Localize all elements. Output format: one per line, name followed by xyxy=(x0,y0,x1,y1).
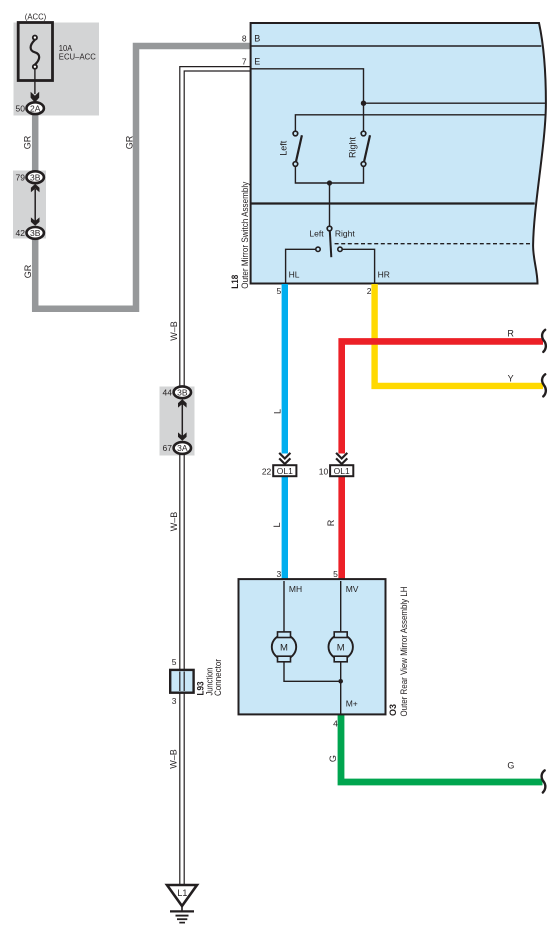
svg-text:22: 22 xyxy=(262,466,272,476)
section divider xyxy=(251,202,535,204)
fuse 10A ECU-ACC xyxy=(18,23,52,95)
wire to Left switch from right edge xyxy=(295,115,545,131)
svg-text:ECU–ACC: ECU–ACC xyxy=(59,52,96,62)
svg-text:M+: M+ xyxy=(346,698,358,708)
svg-text:Y: Y xyxy=(508,373,514,383)
svg-text:2A: 2A xyxy=(30,103,41,113)
svg-text:79: 79 xyxy=(16,172,26,182)
wire contact left to pin 5 HL xyxy=(286,249,316,282)
svg-text:3A: 3A xyxy=(177,443,188,453)
svg-text:L: L xyxy=(272,522,282,527)
wire pin 3 to motor MH xyxy=(283,581,285,632)
connector OL1 (10) chevrons xyxy=(336,453,347,464)
arrow into connector 2A xyxy=(31,92,40,103)
pin 8 line B xyxy=(251,45,542,47)
svg-text:M: M xyxy=(280,642,288,653)
connector 3B lower xyxy=(27,227,44,239)
svg-text:3: 3 xyxy=(172,696,177,706)
gray background panel behind connectors 44/67 xyxy=(160,387,195,456)
wire L blue lower xyxy=(282,477,288,580)
svg-text:GR: GR xyxy=(23,264,33,278)
svg-text:L1: L1 xyxy=(177,888,187,898)
wire pin 5 to motor MV xyxy=(340,581,342,632)
wire W-B double line from pin 7 E down to ground xyxy=(182,69,251,885)
svg-text:8: 8 xyxy=(242,34,247,44)
svg-text:M: M xyxy=(337,642,345,653)
motor M left xyxy=(272,632,296,662)
svg-text:5: 5 xyxy=(276,286,281,296)
selector blade xyxy=(330,231,332,257)
wire GR (gray) from 2A to 3B xyxy=(32,108,39,175)
svg-text:67: 67 xyxy=(163,443,173,453)
svg-text:4: 4 xyxy=(333,719,338,729)
svg-text:R: R xyxy=(326,519,336,526)
connector 2A xyxy=(27,102,44,114)
selector common contact xyxy=(327,226,332,231)
wire GR (gray) from 3B down, right, up to pin 8 B xyxy=(35,46,250,309)
svg-text:5: 5 xyxy=(333,569,338,579)
svg-text:2: 2 xyxy=(367,286,372,296)
wire from node to right edge xyxy=(364,102,546,104)
gray background panel behind fuse xyxy=(14,23,100,116)
junction arrows between 3B and 3A xyxy=(178,399,187,440)
svg-text:Outer Mirror Switch Assembly: Outer Mirror Switch Assembly xyxy=(240,181,250,288)
junction connector L93 xyxy=(170,670,193,693)
svg-text:OL1: OL1 xyxy=(334,466,350,476)
wire junction to pin 4 xyxy=(340,681,342,713)
svg-text:R: R xyxy=(507,329,514,339)
wire W-B through L93 xyxy=(179,672,185,692)
svg-text:Left: Left xyxy=(279,140,289,156)
bus joining both switches xyxy=(295,166,363,183)
node M+ junction xyxy=(338,679,343,684)
contact left xyxy=(316,247,320,251)
svg-text:E: E xyxy=(254,57,260,67)
outer rear view mirror assembly O3 box xyxy=(239,579,386,714)
svg-text:W–B: W–B xyxy=(169,749,179,769)
svg-text:Connector: Connector xyxy=(213,659,223,696)
gray background panel behind connectors 79/42 xyxy=(13,171,46,239)
connector 3B (44) xyxy=(174,386,191,398)
svg-text:3: 3 xyxy=(276,569,281,579)
svg-text:HR: HR xyxy=(378,270,390,280)
wire R red xyxy=(342,341,543,453)
svg-text:Right: Right xyxy=(335,228,355,238)
svg-text:G: G xyxy=(328,755,338,762)
svg-text:GR: GR xyxy=(23,135,33,149)
outer mirror switch assembly L18 box xyxy=(251,23,546,284)
svg-text:44: 44 xyxy=(163,387,173,397)
svg-text:OL1: OL1 xyxy=(277,466,293,476)
svg-text:3B: 3B xyxy=(177,387,188,397)
svg-text:W–B: W–B xyxy=(169,512,179,532)
svg-text:42: 42 xyxy=(16,228,26,238)
svg-text:10: 10 xyxy=(319,466,329,476)
node on bus xyxy=(327,180,332,185)
wire contact right to pin 2 HR xyxy=(342,249,374,282)
svg-text:HL: HL xyxy=(289,270,300,280)
node junction on E branch xyxy=(361,101,366,106)
wire Y yellow xyxy=(375,284,543,386)
svg-text:(ACC): (ACC) xyxy=(25,11,47,21)
wire L blue upper xyxy=(282,284,288,454)
contact right xyxy=(338,247,342,251)
break symbol red xyxy=(542,330,546,352)
wire from node down to Right switch xyxy=(363,103,365,131)
svg-text:3B: 3B xyxy=(30,228,41,238)
break symbol yellow xyxy=(542,374,546,396)
connector 3A (67) xyxy=(174,442,191,454)
svg-text:G: G xyxy=(507,761,514,771)
connector OL1 (22) chevrons xyxy=(279,453,290,464)
svg-text:5: 5 xyxy=(172,657,177,667)
svg-text:7: 7 xyxy=(242,57,247,67)
wire motor left bottom to junction xyxy=(284,662,341,682)
break symbol green xyxy=(542,770,546,792)
dashed line xyxy=(335,243,532,245)
ground L1 xyxy=(167,885,197,923)
svg-text:O3: O3 xyxy=(388,704,398,716)
connector OL1 (10) box xyxy=(330,465,353,476)
connector 3B upper xyxy=(27,171,44,183)
wire G green xyxy=(341,715,543,782)
stem from bus to selector xyxy=(329,183,331,226)
svg-text:3B: 3B xyxy=(30,172,41,182)
svg-text:L: L xyxy=(273,409,283,414)
svg-text:L18: L18 xyxy=(230,275,240,289)
motor M right xyxy=(329,632,353,662)
wire R red lower xyxy=(338,477,345,580)
svg-text:W–B: W–B xyxy=(169,321,179,341)
connector OL1 (22) box xyxy=(273,465,296,476)
junction arrows between 3B and 3B xyxy=(31,184,40,226)
svg-text:MH: MH xyxy=(289,584,302,594)
svg-text:MV: MV xyxy=(346,584,359,594)
wire motor right bottom to junction xyxy=(340,662,342,682)
switch Right (upper) xyxy=(361,131,370,166)
svg-text:Right: Right xyxy=(347,136,357,158)
svg-text:Left: Left xyxy=(309,228,324,238)
svg-text:B: B xyxy=(254,34,260,44)
pin 7 line E with branch down xyxy=(251,69,364,103)
switch Left (upper) xyxy=(293,131,302,166)
svg-text:Outer Rear View Mirror Assembl: Outer Rear View Mirror Assembly LH xyxy=(399,587,409,717)
svg-text:GR: GR xyxy=(125,135,135,149)
svg-text:50: 50 xyxy=(16,103,26,113)
